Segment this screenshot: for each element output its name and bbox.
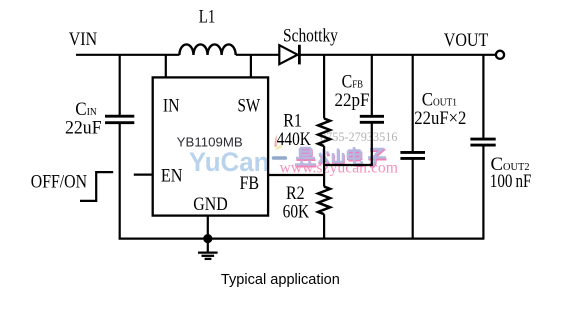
svg-text:22uF×2: 22uF×2 xyxy=(414,108,466,129)
wire EN pin stub xyxy=(134,174,153,176)
wire VIN input rail xyxy=(76,54,179,56)
wire CFB bottom to FB node xyxy=(324,164,372,166)
svg-text:22pF: 22pF xyxy=(335,90,370,111)
svg-text:VIN: VIN xyxy=(69,29,98,50)
svg-text:100 nF: 100 nF xyxy=(490,171,532,192)
svg-text:60K: 60K xyxy=(283,201,310,222)
wire GND pin to ground rail xyxy=(207,216,209,239)
wire ground bottom rail xyxy=(119,238,485,240)
OFF/ON step waveform symbol xyxy=(80,172,113,201)
wire VOUT rail down to R1 xyxy=(323,55,325,119)
svg-text:L1: L1 xyxy=(199,7,216,28)
wire R1 to R2 (FB node) xyxy=(323,146,325,187)
svg-text:GND: GND xyxy=(193,194,227,215)
resistor R1 xyxy=(318,119,330,147)
capacitor CIN xyxy=(105,55,134,240)
svg-text:22uF: 22uF xyxy=(65,117,102,138)
wire diode cathode to VOUT xyxy=(299,54,496,56)
inductor L1 xyxy=(179,44,235,55)
capacitor COUT2 xyxy=(470,55,495,240)
svg-text:IN: IN xyxy=(163,96,180,117)
svg-text:Schottky: Schottky xyxy=(283,25,338,46)
svg-text:440K: 440K xyxy=(277,129,311,150)
node VOUT terminal xyxy=(496,51,504,59)
IC U1 YB1109MB body xyxy=(153,77,268,215)
svg-text:FB: FB xyxy=(240,173,260,194)
wire FB pin stub to divider node xyxy=(269,174,325,176)
wire R2 to ground rail xyxy=(323,214,325,239)
diode D1 Schottky xyxy=(279,45,299,65)
capacitor COUT1 xyxy=(400,55,425,240)
resistor R2 xyxy=(318,187,330,215)
svg-text:EN: EN xyxy=(161,166,183,187)
svg-text:VOUT: VOUT xyxy=(444,30,489,51)
wire IN pin stub xyxy=(165,55,167,78)
svg-text:0755-27933516: 0755-27933516 xyxy=(320,130,398,144)
svg-text:Typical application: Typical application xyxy=(221,271,340,288)
svg-text:YB1109MB: YB1109MB xyxy=(177,134,243,149)
wire L1 to diode anode xyxy=(236,54,279,56)
decorative watermark (not a circuit element) xyxy=(189,130,398,177)
ground symbol xyxy=(198,239,218,259)
capacitor CFB xyxy=(360,55,384,166)
svg-text:SW: SW xyxy=(238,96,261,117)
svg-text:OFF/ON: OFF/ON xyxy=(31,171,87,192)
node ground junction dot xyxy=(203,234,212,243)
wire SW pin stub xyxy=(250,55,252,78)
